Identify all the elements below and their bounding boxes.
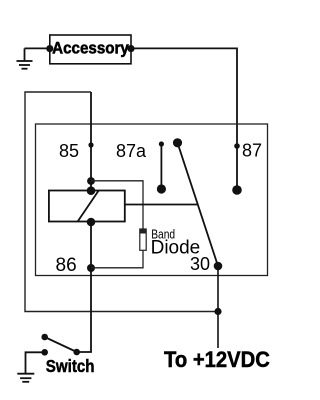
- node 86 junction: [87, 264, 95, 272]
- svg-text:86: 86: [56, 255, 77, 276]
- wire ground to Accessory: [25, 47, 50, 49]
- armature pivot: [173, 138, 182, 147]
- contact 87a: [157, 184, 166, 193]
- svg-text:30: 30: [190, 254, 210, 274]
- relay coil K1: [49, 191, 125, 222]
- node accessory right: [127, 45, 134, 52]
- node +12V junction: [214, 308, 221, 315]
- svg-text:Switch: Switch: [46, 356, 95, 377]
- node coil bottom: [87, 218, 96, 227]
- contact 30: [214, 262, 223, 271]
- svg-text:87a: 87a: [116, 141, 147, 161]
- wire 87: [236, 146, 238, 190]
- svg-text:85: 85: [59, 141, 79, 161]
- switch right contact: [73, 349, 80, 356]
- node coil top: [87, 186, 96, 195]
- wire 30 to +12VDC: [217, 266, 219, 348]
- diode D1: [140, 229, 146, 250]
- terminal 87a dot: [159, 141, 164, 146]
- relay box: [36, 124, 268, 276]
- diode band: [140, 229, 146, 234]
- switch lever: [45, 337, 77, 352]
- wire switch to ground: [26, 352, 45, 373]
- wire diode bottom: [91, 250, 143, 267]
- svg-text:Accessory: Accessory: [52, 40, 129, 58]
- terminal 87 dot: [234, 143, 240, 149]
- wire 87a: [160, 144, 162, 189]
- switch lever end: [41, 334, 48, 341]
- Accessory box: [50, 35, 131, 64]
- node coil top junction: [87, 177, 95, 185]
- ground (switch): [17, 374, 34, 382]
- wire Accessory to 87: [131, 48, 237, 146]
- contact 87: [232, 185, 242, 195]
- wire coil to armature: [125, 204, 198, 206]
- switch left contact: [41, 349, 48, 356]
- svg-text:87: 87: [242, 141, 262, 161]
- outer loop wire (+12V feed to 85): [25, 92, 218, 312]
- wire diode top: [91, 181, 143, 229]
- terminal 85 dot: [88, 142, 93, 147]
- svg-text:To +12VDC: To +12VDC: [164, 348, 270, 372]
- wire 85 vertical: [90, 92, 92, 191]
- ground (top left): [17, 48, 33, 68]
- armature to 30: [178, 143, 219, 266]
- node accessory left: [46, 45, 53, 52]
- wire 86 vertical to switch: [77, 222, 91, 353]
